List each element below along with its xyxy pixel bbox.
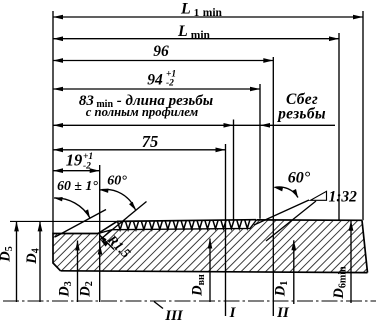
extension line x=99.7 (19 dim / D2): [99, 165, 101, 302]
chamfer extension line (for 60 deg +-1): [55, 210, 106, 238]
dimension line 83: [53, 124, 234, 126]
svg-text:60°: 60°: [288, 170, 311, 187]
dimension line 94: [53, 88, 260, 90]
svg-text:-2: -2: [166, 79, 174, 89]
diameter dimension D2: [98, 245, 103, 255]
body outline: smooth surface right of thread: [257, 219, 363, 221]
diameter dimension D3: [77, 241, 79, 303]
flank extension leader (left 60 deg) with arrowhead: [100, 202, 146, 240]
dimension line 75: [53, 149, 226, 151]
extension line end of full thread profile (x=233.5): [233, 120, 235, 221]
dimension line sbeg rezby (thread runout): [234, 124, 336, 126]
extension line L1 min right / pipe end (x=363): [362, 11, 364, 220]
taper leader line 1:32: [266, 201, 316, 241]
extension line L min right (x=339): [338, 33, 340, 220]
crest reference line extended left for D4/D5: [10, 220, 117, 222]
svg-text:I: I: [229, 305, 237, 321]
taper symbol triangle: [311, 191, 327, 200]
svg-text:96: 96: [153, 43, 169, 60]
diameter dimension Dvn: [209, 239, 211, 303]
diameter dimension D4: [39, 221, 41, 302]
chamfer line at pipe end: [98, 221, 117, 233]
svg-text:с полным профилем: с полным профилем: [86, 105, 199, 119]
dimension line L1min: [53, 16, 363, 18]
svg-text:60°: 60°: [107, 174, 127, 189]
extension line pipe face (left datum): [52, 11, 54, 234]
flank extension line (right 60 deg): [254, 200, 309, 225]
body outline: face and face top: [53, 234, 98, 271]
svg-text:резьбы: резьбы: [276, 106, 326, 123]
diameter dimension D6min: [350, 221, 352, 303]
centerline (pipe axis): [3, 300, 376, 302]
dimension line Lmin: [53, 38, 339, 40]
svg-text:19: 19: [66, 151, 83, 170]
svg-text:94: 94: [147, 72, 163, 89]
leader for III: [154, 302, 163, 309]
R1.5 leader: [100, 235, 115, 250]
extension line plane II (x=273.3): [272, 57, 274, 316]
svg-text:+1: +1: [83, 152, 93, 162]
arc 60 deg right: [274, 187, 298, 198]
body outline: right end edge: [362, 220, 368, 272]
svg-text:1:32: 1:32: [329, 189, 358, 206]
arc 60 +-1 deg: [54, 198, 90, 218]
dimension line 19: [53, 170, 100, 172]
extension line plane I (x=225.5): [225, 144, 227, 316]
body outline: bore line: [61, 271, 368, 273]
diameter dimension D1: [293, 240, 295, 304]
arc 60 deg left: [100, 189, 136, 210]
svg-text:-2: -2: [83, 162, 91, 172]
diameter dimension D5: [16, 221, 18, 302]
body outline: thread root cone: [98, 220, 257, 234]
svg-text:II: II: [276, 305, 290, 321]
thread teeth profile: [117, 220, 256, 222]
svg-text:75: 75: [142, 132, 159, 151]
svg-text:60 ± 1°: 60 ± 1°: [57, 178, 98, 193]
pipe wall section (hatched body): [53, 220, 368, 273]
svg-text:III: III: [164, 308, 184, 322]
dimension line 96: [53, 60, 273, 62]
extension line end of thread (x=260): [259, 84, 261, 219]
